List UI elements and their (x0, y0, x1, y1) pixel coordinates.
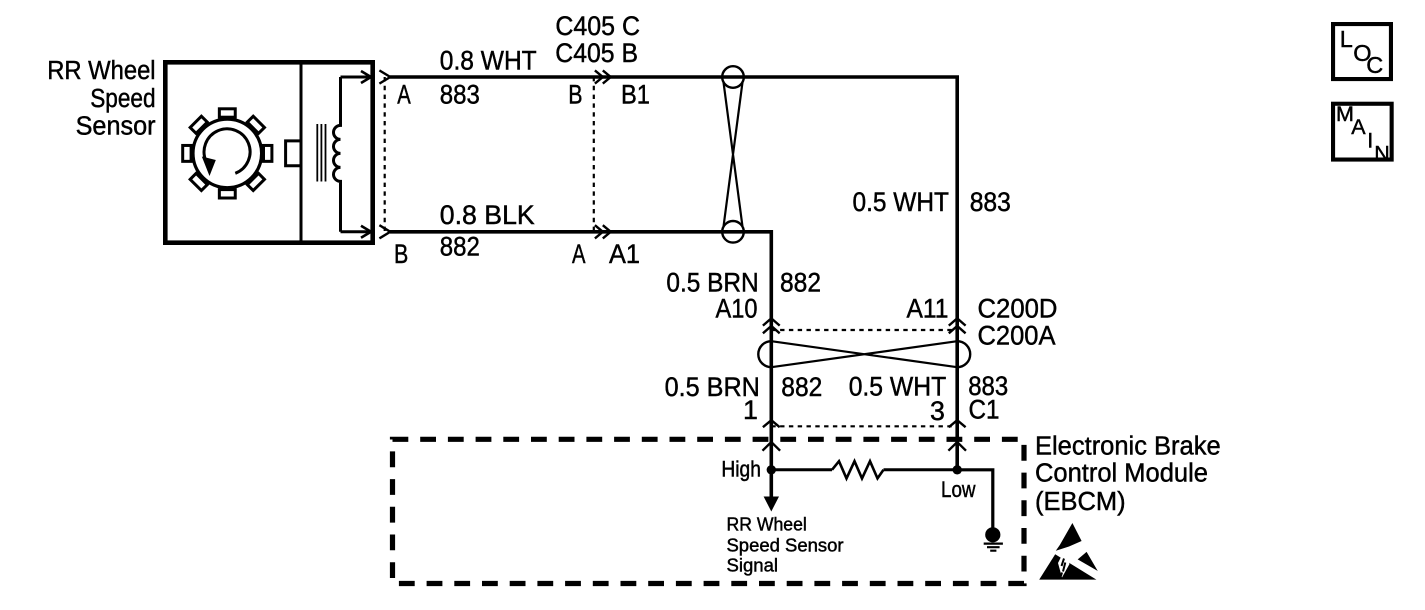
svg-text:(EBCM): (EBCM) (1035, 488, 1126, 516)
svg-text:0.5 WHT: 0.5 WHT (853, 187, 950, 217)
svg-text:Sensor: Sensor (76, 111, 156, 141)
svg-text:Electronic Brake: Electronic Brake (1035, 433, 1221, 461)
svg-text:Speed: Speed (90, 83, 155, 113)
svg-text:Speed Sensor: Speed Sensor (727, 535, 844, 556)
svg-text:882: 882 (780, 268, 821, 298)
svg-text:N: N (1374, 142, 1390, 166)
svg-text:A11: A11 (907, 294, 949, 324)
svg-text:RR Wheel: RR Wheel (47, 55, 155, 85)
svg-text:A: A (572, 239, 586, 269)
svg-text:C: C (1366, 52, 1383, 78)
svg-text:C405 C: C405 C (555, 11, 640, 41)
svg-text:C200D: C200D (978, 294, 1058, 324)
svg-text:C1: C1 (969, 395, 1000, 425)
svg-text:L: L (1340, 26, 1353, 52)
svg-text:Low: Low (941, 477, 976, 502)
svg-text:A10: A10 (716, 294, 758, 324)
svg-text:0.8 BLK: 0.8 BLK (440, 200, 535, 230)
svg-text:3: 3 (930, 396, 945, 426)
svg-text:C200A: C200A (978, 321, 1056, 351)
svg-text:883: 883 (970, 187, 1011, 217)
svg-text:A: A (397, 80, 411, 110)
svg-text:B1: B1 (621, 80, 650, 110)
svg-text:RR Wheel: RR Wheel (727, 513, 807, 534)
svg-text:883: 883 (440, 80, 480, 110)
svg-text:1: 1 (743, 395, 758, 425)
svg-text:High: High (721, 456, 761, 481)
svg-text:A1: A1 (609, 239, 640, 269)
svg-text:Control Module: Control Module (1035, 460, 1208, 488)
svg-text:I: I (1367, 128, 1373, 152)
svg-text:C405 B: C405 B (555, 38, 638, 68)
svg-text:0.8 WHT: 0.8 WHT (440, 45, 537, 75)
svg-text:Signal: Signal (727, 555, 779, 576)
svg-text:A: A (1351, 115, 1366, 139)
svg-text:B: B (394, 239, 408, 269)
svg-text:B: B (568, 80, 582, 110)
svg-text:882: 882 (440, 232, 480, 262)
svg-text:882: 882 (781, 372, 822, 402)
